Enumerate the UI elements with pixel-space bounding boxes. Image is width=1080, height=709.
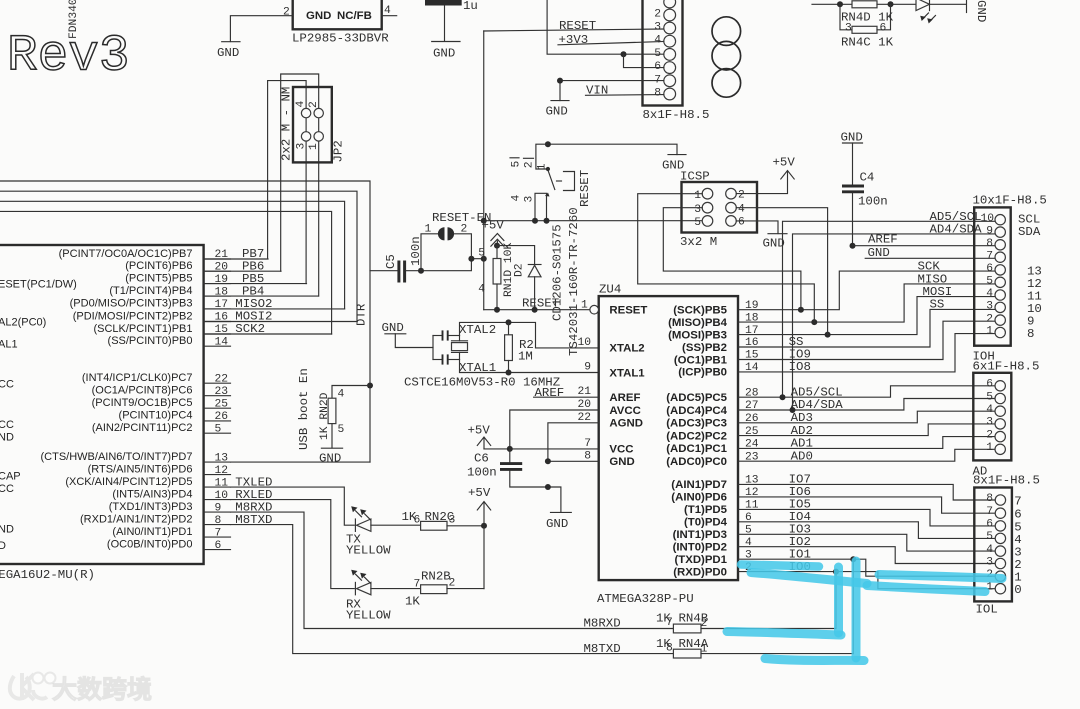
net label AD4/SDA [791, 398, 844, 412]
ZU4 pin 17 (MOSI)PB3 [668, 325, 758, 342]
svg-text:(XCK/AIN4/PCINT12)PD5: (XCK/AIN4/PCINT12)PD5 [65, 476, 192, 488]
svg-text:RESET: RESET [559, 19, 596, 33]
net label XTAL1 [459, 361, 496, 375]
junction RN2C/+5V [481, 523, 487, 529]
net label XTAL2 [459, 323, 496, 337]
pin 22 (INT4/ICP1/CLK0)PC7 of U3 ATMEGA16U2 [82, 372, 231, 385]
wire net IO0 to IOL pin1 [738, 572, 995, 589]
svg-text:(OC0B/INT0)PD0: (OC0B/INT0)PD0 [107, 538, 193, 550]
svg-text:100n: 100n [467, 466, 497, 480]
svg-text:C6: C6 [474, 452, 489, 466]
junction RN4D left [837, 1, 843, 7]
annotation highlighter stroke to IOL pin1 [867, 586, 985, 592]
LED top right [916, 0, 966, 24]
svg-text:6: 6 [986, 263, 993, 275]
svg-text:1: 1 [986, 326, 993, 338]
wire ICSP pin6 to GND [736, 221, 778, 234]
IOH digital pin label 12 [1027, 277, 1042, 291]
ZU4 pin 6 (T0)PD4 [684, 512, 752, 529]
net label AD3 [791, 411, 813, 425]
IOL pin 5 [986, 531, 993, 543]
IC ATMEGA16U2-MU(R) body [0, 245, 204, 582]
svg-text:ATMEGA16U2-MU(R): ATMEGA16U2-MU(R) [0, 568, 95, 582]
wire VCC +5V rail [484, 448, 599, 450]
svg-text:(T1)PD5: (T1)PD5 [684, 504, 728, 516]
pin 6 (OC0B/INT0)PD0 of U3 ATMEGA16U2 [107, 538, 231, 551]
ground symbol below C6 [546, 512, 571, 531]
wire AGND down [548, 423, 599, 462]
wire net PB5 [204, 283, 307, 285]
wire RN4A to IO1 [852, 559, 854, 653]
IOL pin 8 [986, 493, 993, 505]
net label AD0 [791, 449, 813, 463]
svg-text:7: 7 [986, 250, 993, 262]
svg-text:(TXD1/INT3)PD3: (TXD1/INT3)PD3 [109, 501, 193, 513]
svg-text:GND: GND [306, 10, 331, 22]
wire net IO5 to IOL header [738, 509, 995, 526]
svg-text:GND: GND [546, 517, 568, 531]
svg-text:TS42031-160R-TR-7260: TS42031-160R-TR-7260 [567, 207, 581, 356]
IOL pin 2 [986, 569, 993, 581]
svg-text:(ADC4)PC4: (ADC4)PC4 [666, 405, 727, 417]
ZU4 pin 3 (TXD)PD1 [674, 549, 752, 566]
svg-text:1u: 1u [463, 0, 478, 13]
wire TXLED net [231, 487, 355, 525]
svg-text:1K RN2D: 1K RN2D [319, 392, 331, 440]
wire RN2D top to node [332, 386, 370, 399]
IOL digital pin label 1 [1014, 571, 1021, 585]
wire PB4/MISO to header [738, 284, 995, 322]
junction D2 anode [532, 307, 538, 313]
svg-text:2: 2 [283, 7, 290, 19]
pin 9 (TXD1/INT3)PD3 of U3 ATMEGA16U2 [109, 501, 231, 514]
IOH pin 2 [986, 313, 993, 325]
svg-text:CC: CC [0, 379, 14, 391]
wire RESET branch to switch and ICSP pin5 [484, 220, 702, 222]
svg-text:(INT5/AIN3)PD4: (INT5/AIN3)PD4 [112, 488, 192, 500]
svg-text:GND: GND [841, 131, 863, 145]
svg-text:(PCINT9/OC1B)PC5: (PCINT9/OC1B)PC5 [92, 397, 193, 409]
net label VIN [586, 84, 664, 98]
switch bottom contacts to RESET line [535, 193, 547, 220]
svg-text:8: 8 [584, 450, 591, 462]
svg-text:4: 4 [738, 204, 745, 216]
svg-text:22: 22 [577, 412, 591, 424]
svg-text:5: 5 [338, 424, 345, 436]
capacitor C? 1u [425, 0, 478, 41]
svg-text:(PCINT6)PB6: (PCINT6)PB6 [125, 260, 192, 272]
IOH label SCL [1018, 212, 1040, 226]
IOH pin 5 [986, 276, 993, 288]
IOL pin 1 [986, 582, 993, 594]
LED RX yellow [355, 582, 420, 594]
svg-text:1: 1 [986, 442, 993, 454]
wire U2 pin4 stub [382, 15, 397, 17]
net label AD2 [791, 424, 813, 438]
svg-text:AGND: AGND [609, 418, 643, 430]
resistor RN4B 1K [656, 612, 836, 633]
svg-text:0: 0 [1014, 583, 1021, 597]
net label PB4 [242, 284, 264, 298]
svg-text:C5: C5 [384, 254, 398, 269]
wire JP2 pin3 down to PB5 [305, 113, 307, 284]
net label M8TXD [584, 642, 621, 656]
pin 4 of U2 [384, 5, 391, 17]
svg-text:(T0)PD4: (T0)PD4 [684, 517, 728, 529]
svg-text:YELLOW: YELLOW [346, 544, 391, 558]
svg-text:5: 5 [986, 276, 993, 288]
wire net IO7 to IOL header [738, 484, 995, 500]
svg-text:6: 6 [986, 519, 993, 531]
ZU4 pin 7 VCC [584, 438, 633, 456]
net label SCK2 [235, 322, 265, 336]
IOL digital pin label 0 [1014, 583, 1021, 597]
resistor RN4D 1K [812, 1, 916, 25]
net label IO4 [789, 510, 811, 524]
svg-text:RN2B: RN2B [421, 570, 451, 584]
wire JP2 pin2 loop to PB6 [281, 74, 319, 271]
svg-text:(INT0)PD2: (INT0)PD2 [673, 542, 727, 554]
svg-text:20: 20 [577, 399, 591, 411]
svg-text:XTAL2: XTAL2 [459, 323, 496, 337]
junction AGND/GND [545, 458, 551, 464]
svg-text:(OC1A/PCINT8)PC6: (OC1A/PCINT8)PC6 [92, 385, 193, 397]
annotation highlighter stroke A over IO1 wire [741, 565, 819, 567]
pin label AL2(PC0) of U3 (clipped at left edge) [0, 316, 46, 328]
junction pin5/pin6 feed [621, 51, 627, 57]
wire PD7 pin13 to RN2D node [231, 461, 371, 463]
switch net label RESET (vertical) [578, 170, 592, 207]
pin 12 (RTS/AIN5/INT6)PD6 of U3 ATMEGA16U2 [88, 463, 231, 476]
svg-text:USB boot En: USB boot En [297, 368, 311, 450]
svg-text:(AIN1)PD7: (AIN1)PD7 [671, 479, 727, 491]
ZU4 pin 5 (INT1)PD3 [673, 525, 752, 542]
annotation highlighter stroke D along RN4B wire [727, 632, 841, 636]
wire net MISO2 [204, 308, 345, 310]
pin 8 (RXD1/AIN1/INT2)PD2 of U3 ATMEGA16U2 [80, 513, 230, 526]
switch pins 5,2 labels [510, 158, 536, 168]
pin label ND of U3 (clipped at left edge) [0, 524, 14, 536]
svg-text:LP2985-33DBVR: LP2985-33DBVR [292, 32, 389, 46]
wire MISO2 from left edge [0, 201, 345, 309]
svg-text:C4: C4 [860, 171, 875, 185]
svg-text:2: 2 [986, 313, 993, 325]
junction switch pin3 [544, 218, 550, 224]
svg-text:6: 6 [414, 515, 421, 527]
svg-text:(PCINT7/OC0A/OC1C)PB7: (PCINT7/OC0A/OC1C)PB7 [59, 248, 193, 260]
svg-text:XTAL1: XTAL1 [609, 367, 645, 379]
junction +5V/RN1D/D2 [494, 243, 500, 249]
svg-text:GND: GND [974, 0, 988, 22]
net label TXLED [235, 475, 272, 489]
svg-text:RN4C 1K: RN4C 1K [841, 35, 894, 49]
svg-text:10x1F-H8.5: 10x1F-H8.5 [973, 194, 1047, 208]
wire net M8RXD [231, 512, 674, 628]
IOL pin 3 [986, 556, 993, 568]
svg-text:M8TXD: M8TXD [584, 642, 621, 656]
pin label ESET(PC1/DW) of U3 (clipped at left edge) [0, 279, 77, 291]
svg-text:(ADC1)PC1: (ADC1)PC1 [666, 443, 727, 455]
svg-text:(CTS/HWB/AIN6/TO/INT7)PD7: (CTS/HWB/AIN6/TO/INT7)PD7 [41, 451, 193, 463]
part number TS42031-160R-TR-7260 (vertical) [567, 207, 581, 356]
wire ICSP pin4 MOSI [736, 208, 827, 335]
pin label ND of U3 (clipped at left edge) [0, 432, 14, 444]
svg-text:2x2 M - NM: 2x2 M - NM [280, 87, 294, 161]
pin 17 (PD0/MISO/PCINT3)PB3 of U3 ATMEGA16U2 [70, 298, 231, 311]
svg-text:2: 2 [308, 101, 320, 108]
IOL digital pin label 4 [1014, 533, 1021, 547]
svg-text:SS: SS [930, 298, 945, 312]
svg-text:FDN340P: FDN340P [68, 0, 80, 39]
ground symbol at resonator [382, 321, 434, 347]
junction C4/AREF [850, 243, 856, 249]
wire net AD5/SCL to pin10 [783, 210, 996, 397]
ZU4 pin 4 (INT0)PD2 [673, 537, 752, 554]
svg-text:6: 6 [880, 23, 887, 35]
ZU4 pin 26 (ADC3)PC3 [666, 413, 759, 430]
svg-text:9: 9 [584, 362, 591, 374]
svg-text:(T1/PCINT4)PB4: (T1/PCINT4)PB4 [109, 285, 192, 297]
svg-text:D2: D2 [514, 263, 526, 277]
ZU4 pin 13 (AIN1)PD7 [671, 475, 758, 492]
wire net RESET main vertical [483, 31, 485, 310]
switch actuator dash-dot bracket [557, 172, 575, 191]
resonator bottom capacitor [433, 354, 460, 364]
svg-text:5: 5 [511, 161, 523, 168]
svg-text:(SCLK/PCINT1)PB1: (SCLK/PCINT1)PB1 [93, 323, 192, 335]
wire MOSI2 from left edge [0, 191, 357, 321]
part label CSTCE16M0V53-R0 16MHZ [404, 376, 560, 390]
svg-text:3: 3 [296, 143, 308, 150]
svg-text:CC: CC [0, 419, 14, 431]
svg-text:(SS/PCINT0)PB0: (SS/PCINT0)PB0 [108, 335, 193, 347]
junction switch top [545, 141, 551, 147]
svg-text:8: 8 [1027, 327, 1034, 341]
svg-text:GND: GND [609, 456, 634, 468]
svg-text:10: 10 [980, 213, 994, 225]
IOH pin 6 [986, 263, 993, 275]
label RX YELLOW [346, 598, 391, 623]
annotation highlighter vertical V2 [852, 561, 861, 658]
junction switch pin4 [532, 218, 538, 224]
svg-text:1K: 1K [405, 595, 420, 609]
TX LED emission arrows [351, 506, 370, 520]
svg-text:JP2: JP2 [332, 140, 346, 162]
POWER pin 2 [654, 9, 661, 21]
net label PB6 [242, 259, 264, 273]
junction pad2 node [468, 256, 474, 262]
junction R2 bottom [506, 370, 512, 376]
connector JP2 2x2 M - NM [293, 87, 332, 162]
pin 23 (OC1A/PCINT8)PC6 of U3 ATMEGA16U2 [92, 385, 231, 398]
svg-text:SCK: SCK [918, 260, 941, 274]
svg-text:AREF: AREF [609, 392, 640, 404]
IOL digital pin label 3 [1014, 546, 1021, 560]
wire net IO6 to IOL header [738, 497, 995, 513]
IOH digital pin label 9 [1027, 315, 1034, 329]
pin 2 of U2 [283, 7, 290, 19]
pin label CC of U3 (clipped at left edge) [0, 419, 14, 431]
ZU4 pin 24 (ADC1)PC1 [666, 439, 759, 456]
net label AD1 [791, 437, 813, 451]
ZU4 pin 10 XTAL2 [577, 337, 644, 355]
power symbol +5V above C6 [468, 424, 491, 449]
resistor RN4C 1K [840, 4, 894, 49]
svg-text:2: 2 [654, 9, 661, 21]
svg-text:XTAL2: XTAL2 [609, 343, 644, 355]
resistor R2 1M [505, 322, 534, 372]
ground symbol rotated at right edge [967, 0, 989, 22]
connector AD 6x1F-H8.5 [973, 359, 1040, 460]
net label SS [789, 335, 804, 349]
svg-text:10: 10 [577, 337, 591, 349]
annotation highlighter stroke to IOL pin2 [879, 575, 1002, 579]
ZU4 pin 21 AREF [577, 386, 640, 404]
net label IO6 [789, 485, 811, 499]
svg-text:+5V: +5V [468, 486, 491, 500]
wire GND pin8 [548, 460, 599, 462]
ZU4 pin 14 (ICP)PB0 [678, 362, 759, 379]
wire net SCK2 [204, 333, 332, 335]
wire net AD2 to AD header [738, 424, 995, 436]
pin 19 (PCINT5)PB5 of U3 ATMEGA16U2 [125, 272, 230, 285]
IOL digital pin label 6 [1014, 508, 1021, 522]
net label AD5/SCL [791, 385, 843, 399]
svg-text:RESET: RESET [578, 170, 592, 207]
IOH pin 4 [986, 288, 993, 300]
svg-text:(PCINT5)PB5: (PCINT5)PB5 [125, 272, 192, 284]
IOL digital pin label 5 [1014, 520, 1021, 534]
svg-text:+5V: +5V [773, 156, 796, 170]
pin label D of U3 (clipped at left edge) [0, 540, 6, 552]
wire net AD4/SDA to pin9 [793, 223, 996, 411]
svg-text:DTR: DTR [355, 303, 369, 326]
IOL name below [976, 603, 998, 617]
resistor RN2C 1K [402, 510, 485, 530]
wire +5V down to RN2B [483, 526, 485, 589]
crystal element [452, 336, 468, 360]
svg-text:4: 4 [986, 404, 993, 416]
svg-text:(AIN0)PD6: (AIN0)PD6 [671, 492, 727, 504]
net label M8TXD [235, 513, 272, 527]
net label IO5 [789, 498, 811, 512]
ZU4 pin 2 (RXD)PD0 [673, 562, 752, 579]
ZU4 pin 8 GND [584, 450, 634, 468]
junction SCK/ICSP [798, 307, 804, 313]
pin 26 (PCINT10)PC4 of U3 ATMEGA16U2 [119, 410, 231, 423]
junction C5/pad1 [418, 268, 424, 274]
wire net AD3 to AD header [738, 411, 995, 423]
junction on RESET vertical [481, 256, 487, 262]
IOH pin 7 [986, 250, 993, 262]
svg-text:4: 4 [986, 544, 993, 556]
wire net AD1 to AD header [738, 437, 995, 449]
svg-text:2: 2 [986, 429, 993, 441]
svg-text:D: D [0, 540, 6, 552]
pin 20 (PCINT6)PB6 of U3 ATMEGA16U2 [125, 260, 230, 273]
wire net PB6 [204, 270, 281, 272]
svg-text:ZU4: ZU4 [599, 283, 621, 297]
svg-text:GND: GND [319, 452, 341, 466]
svg-text:GND: GND [763, 237, 785, 251]
JP2 pin 4 [295, 101, 307, 108]
label TX YELLOW [346, 533, 391, 558]
svg-text:ATMEGA328P-PU: ATMEGA328P-PU [597, 592, 694, 606]
svg-text:(AIN0/INT1)PD1: (AIN0/INT1)PD1 [112, 526, 192, 538]
net label RESET at ZU4 [522, 297, 559, 311]
pin 25 (PCINT9/OC1B)PC5 of U3 ATMEGA16U2 [92, 397, 231, 410]
POWER pin 8 [654, 88, 661, 100]
net label IO7 [789, 473, 811, 487]
capacitor C5 100n [384, 236, 423, 282]
wire JP2 pin1 down to PB4 [318, 113, 320, 296]
power label +5V clipped at top edge [536, 0, 559, 3]
power symbol +5V at ICSP pin2 [736, 156, 795, 194]
AD pin 6 [986, 379, 993, 391]
transistor T1 part label FDN340P (vertical, clipped) [68, 0, 80, 39]
net label PB5 [242, 272, 264, 286]
svg-text:6x1F-H8.5: 6x1F-H8.5 [973, 359, 1040, 373]
net label SS [930, 298, 945, 312]
IOL digital pin label 2 [1014, 558, 1021, 572]
svg-text:(ADC3)PC3: (ADC3)PC3 [666, 418, 727, 430]
net label AREF at ZU4 [534, 386, 599, 400]
ground symbol at ICSP pin6 [763, 234, 788, 251]
svg-text:(RXD1/AIN1/INT2)PD2: (RXD1/AIN1/INT2)PD2 [80, 513, 192, 525]
diode D2 CD1206-S01575 [514, 263, 542, 309]
svg-text:VCC: VCC [609, 444, 633, 456]
wire net IO3 to IOL header [738, 534, 995, 551]
wire +5V rail into pin5 [547, 0, 664, 54]
resonator left bus [432, 336, 434, 360]
AD pin 1 [986, 442, 993, 454]
svg-text:(OC1)PB1: (OC1)PB1 [674, 354, 728, 366]
AD pin 3 [986, 417, 993, 429]
watermark text 大数跨境 [52, 675, 152, 704]
wire to pin6 [624, 54, 664, 67]
junction AD5 [780, 394, 786, 400]
wire net AD0 to AD header [738, 449, 995, 461]
resistor RN2B 1K [405, 570, 484, 609]
svg-text:7: 7 [584, 438, 591, 450]
JP2 pin 2 [308, 101, 320, 108]
svg-text:(TXD)PD1: (TXD)PD1 [674, 554, 727, 566]
svg-text:(MOSI)PB3: (MOSI)PB3 [668, 329, 727, 341]
ZU4 pin 27 (ADC4)PC4 [666, 400, 758, 417]
text Rev3 revision label [7, 29, 129, 86]
IC ZU4 ATMEGA328P-PU body [597, 283, 738, 607]
svg-text:5: 5 [694, 217, 701, 229]
wire DTR from left edge [0, 181, 370, 462]
wire PB2/SS to header [738, 309, 995, 347]
wire net AREF to pin8 [853, 233, 996, 247]
junction IO1/M8TXD [850, 556, 856, 562]
IOH pin 9 [986, 225, 993, 237]
net label IO3 [789, 523, 811, 537]
solder jumper RESET-EN [421, 211, 492, 271]
svg-text:2: 2 [524, 161, 536, 168]
net label USB boot En (vertical) [297, 368, 311, 450]
svg-text:SDA: SDA [1018, 225, 1041, 239]
svg-text:(SCK)PB5: (SCK)PB5 [673, 305, 727, 317]
net label PB7 [242, 247, 264, 261]
IOH digital pin label 13 [1027, 264, 1042, 278]
svg-text:3: 3 [986, 556, 993, 568]
net label +3V3 [558, 33, 664, 47]
resistor RN1D 10K [478, 243, 515, 310]
ZU4 pin 11 (T1)PD5 [684, 500, 759, 517]
wire net MOSI2 [204, 321, 357, 323]
